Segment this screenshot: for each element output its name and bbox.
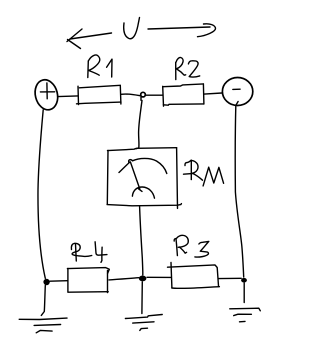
wire middle node down to ground xyxy=(141,282,143,314)
wire left node down to ground xyxy=(41,286,45,316)
wire left node to R4 xyxy=(50,280,67,283)
ground right xyxy=(230,308,260,322)
arrow right xyxy=(148,24,216,37)
node bottom-left dot xyxy=(43,279,49,285)
wire R2 to minus xyxy=(204,93,221,94)
resistor R2 xyxy=(163,84,204,106)
wire R1 to node xyxy=(121,94,140,96)
label R1 xyxy=(88,55,112,78)
node middle dot xyxy=(139,276,147,282)
node junction (top, small loop) xyxy=(141,92,146,100)
label RM xyxy=(184,160,224,186)
wire minus down to right node xyxy=(235,102,243,278)
label U xyxy=(124,18,140,39)
wire right node down to ground xyxy=(243,283,245,303)
meter needle end tick xyxy=(139,189,143,192)
wire plus to R1 xyxy=(58,95,78,98)
meter scale left stroke xyxy=(119,162,130,173)
label R3 xyxy=(174,235,209,257)
ground middle xyxy=(125,315,162,331)
node right dot xyxy=(241,278,247,283)
label R4 xyxy=(71,242,107,262)
wire middle node to R3 xyxy=(147,276,171,278)
arrow left (U direction) xyxy=(67,29,112,49)
source terminal + (left) xyxy=(32,77,61,112)
wire R4 to middle node xyxy=(109,278,139,280)
label R2 xyxy=(176,57,200,79)
wire plus down to left node xyxy=(38,110,45,278)
wire R3 to right node xyxy=(219,277,242,279)
source terminal - (right) xyxy=(222,78,252,106)
wire RM bottom down to middle node xyxy=(140,207,143,275)
meter pivot arc xyxy=(132,187,154,198)
wire node to R2 xyxy=(146,94,162,96)
wire top node down to RM box xyxy=(137,101,143,149)
meter needle top curl xyxy=(129,160,133,163)
meter scale right arc xyxy=(133,158,167,173)
resistor R1 xyxy=(77,85,122,104)
meter needle xyxy=(130,162,139,189)
meter box RM xyxy=(107,148,181,209)
resistor R3 xyxy=(168,263,220,289)
ground left xyxy=(19,318,67,333)
resistor R4 xyxy=(67,268,109,293)
